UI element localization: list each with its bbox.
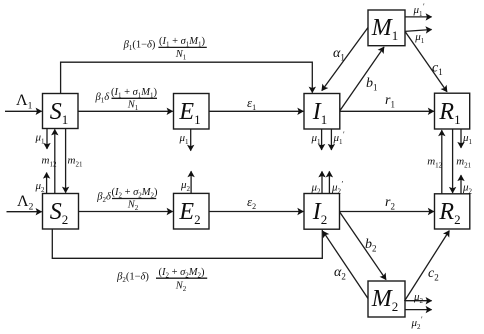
- svg-text:β1δ: β1δ: [95, 92, 111, 105]
- svg-text:μ1: μ1: [462, 132, 473, 146]
- box M2: [368, 281, 405, 317]
- label beta1 delta fraction on S1-E1 arrow: [95, 87, 158, 112]
- arrow mu2 right of M2: [405, 291, 432, 305]
- svg-text:(I1 + σ1M1): (I1 + σ1M1): [159, 36, 206, 49]
- svg-text:μ1′: μ1′: [413, 2, 425, 18]
- svg-text:m21: m21: [68, 155, 83, 169]
- box M1: [368, 10, 405, 46]
- arrow mu1-prime right of M1: [405, 2, 432, 18]
- box S1: [43, 94, 79, 129]
- svg-text:β2(1−δ): β2(1−δ): [116, 272, 149, 285]
- svg-text:μ2′: μ2′: [331, 180, 343, 196]
- arrow m21 from R1 down into R2: [453, 129, 472, 193]
- box R1: [435, 93, 470, 129]
- arrow mu2 above E2: [180, 171, 191, 193]
- svg-text:μ1: μ1: [311, 132, 322, 146]
- svg-text:μ2: μ2: [180, 179, 191, 193]
- svg-text:N2: N2: [175, 281, 187, 294]
- arrow E1 to I1: [209, 95, 303, 112]
- arrow mu1 right of M1: [405, 30, 432, 46]
- svg-text:μ2: μ2: [311, 182, 322, 196]
- svg-text:m12: m12: [427, 156, 442, 170]
- arrow mu1 below E1: [179, 129, 191, 151]
- svg-text:μ1′: μ1′: [333, 130, 345, 146]
- arrow I1 to R1 (r1): [340, 93, 434, 111]
- arrow b2 from I2 to M2: [340, 212, 387, 280]
- arrow mu1 below I1: [311, 129, 322, 150]
- label beta2(1-delta) fraction on bypass2: [116, 267, 207, 293]
- arrow m12 from S2 up into S1: [42, 129, 57, 194]
- arrow I2 to R2 (r2): [340, 195, 434, 212]
- arrow E2 to I2: [209, 194, 303, 212]
- svg-text:μ1: μ1: [179, 132, 190, 146]
- svg-text:μ2: μ2: [462, 182, 473, 196]
- box E2: [174, 193, 210, 229]
- svg-text:b2: b2: [365, 237, 377, 254]
- arrow Lambda2 into S2: [7, 193, 42, 213]
- box I2: [304, 194, 340, 230]
- arrow mu1-prime below I1: [331, 129, 344, 150]
- box S2: [43, 194, 79, 230]
- arrow mu1 below R1: [461, 129, 473, 148]
- arrow mu2 above S2: [35, 173, 47, 194]
- arrow m21 from S1 down into S2: [66, 129, 83, 193]
- svg-text:μ1: μ1: [35, 132, 46, 146]
- svg-text:(I2 + σ2M2): (I2 + σ2M2): [158, 267, 205, 280]
- label beta2 delta fraction on S2-E2 arrow: [96, 187, 158, 212]
- svg-text:(I2 + σ2M2): (I2 + σ2M2): [111, 187, 158, 200]
- arrow mu2 above I2: [311, 171, 323, 195]
- arrow alpha2 from M2 to I2: [323, 231, 368, 298]
- bypass wire S2 bottom to I2 bottom: [52, 229, 322, 258]
- arrow S2 to E2: [79, 211, 173, 213]
- svg-text:Λ2: Λ2: [17, 193, 34, 213]
- svg-text:m21: m21: [456, 156, 471, 170]
- svg-text:α1: α1: [333, 46, 345, 63]
- box R2: [435, 194, 470, 229]
- svg-text:ε2: ε2: [247, 194, 256, 211]
- svg-text:β1(1−δ): β1(1−δ): [123, 40, 156, 53]
- svg-text:N2: N2: [127, 200, 139, 213]
- box E1: [174, 94, 210, 130]
- svg-text:α2: α2: [334, 265, 346, 282]
- arrow c1 from M1 to R1: [405, 31, 447, 91]
- arrow mu2-prime above I2: [329, 171, 343, 195]
- arrow alpha1 from M1 to I1: [322, 28, 368, 91]
- arrow mu2-prime right of M2: [405, 310, 432, 331]
- svg-text:μ2: μ2: [35, 180, 46, 194]
- svg-text:μ2: μ2: [413, 291, 424, 305]
- svg-text:N1: N1: [175, 49, 187, 62]
- bypass wire S1 top to I1 top: [61, 62, 313, 93]
- svg-text:Λ1: Λ1: [16, 92, 33, 112]
- svg-text:r2: r2: [385, 195, 395, 212]
- arrow c2 from M2 to R2: [405, 231, 450, 301]
- svg-text:r1: r1: [385, 93, 395, 110]
- svg-text:μ1: μ1: [414, 31, 425, 45]
- svg-text:c2: c2: [428, 266, 439, 283]
- arrow S1 to E1: [78, 110, 173, 112]
- label beta1(1-delta) fraction on bypass1: [123, 36, 207, 61]
- svg-text:β2δ: β2δ: [96, 192, 112, 205]
- arrow mu2 above R2: [461, 175, 473, 195]
- svg-text:N1: N1: [127, 99, 139, 112]
- svg-text:ε1: ε1: [247, 95, 256, 112]
- box I1: [304, 94, 340, 130]
- arrow m12 from R2 up into R1: [427, 130, 442, 194]
- svg-text:(I1 + σ1M1): (I1 + σ1M1): [111, 87, 158, 100]
- arrow b1 from I1 to M1: [340, 47, 384, 111]
- arrow Lambda1 into S1: [5, 92, 42, 112]
- arrow mu1 below S1: [35, 129, 48, 149]
- svg-text:c1: c1: [432, 61, 443, 78]
- svg-text:μ2′: μ2′: [411, 315, 423, 331]
- svg-text:b1: b1: [366, 76, 378, 93]
